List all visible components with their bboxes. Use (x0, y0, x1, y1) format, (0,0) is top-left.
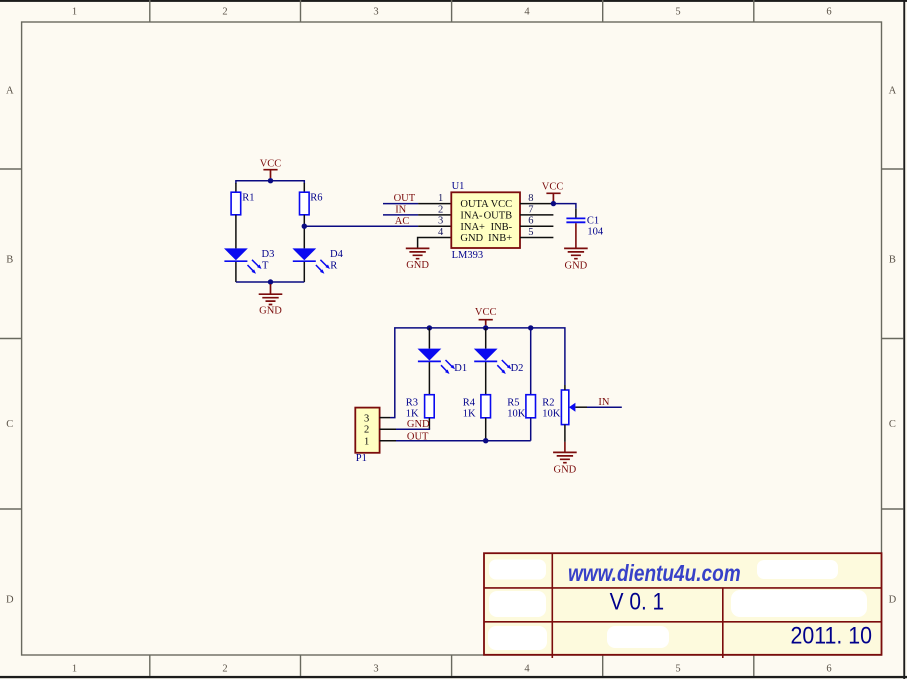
svg-text:C: C (889, 419, 896, 430)
svg-text:INA+: INA+ (460, 222, 485, 233)
svg-text:8: 8 (528, 193, 533, 204)
svg-text:GND: GND (554, 464, 577, 475)
svg-text:1: 1 (438, 193, 443, 204)
svg-text:D3: D3 (262, 249, 275, 260)
svg-text:GND: GND (407, 419, 430, 430)
wire (rail to D1) (428, 328, 430, 349)
wire (pin R6 top) (303, 183, 305, 192)
wire (D2 to R4) (485, 362, 487, 395)
node (junction dot bottom rail) (268, 279, 273, 284)
svg-text:R6: R6 (310, 193, 322, 204)
wire (pin stub P1-3) (380, 417, 390, 419)
svg-text:U1: U1 (452, 181, 465, 192)
svg-text:A: A (6, 86, 14, 97)
svg-text:2: 2 (438, 204, 443, 215)
svg-text:INB+: INB+ (488, 233, 512, 244)
power port VCC (U1 pin 8) (542, 181, 564, 201)
svg-text:B: B (6, 255, 13, 266)
svg-text:2011. 10: 2011. 10 (791, 623, 873, 650)
node (AC tap junction) (302, 224, 307, 229)
svg-text:OUT: OUT (394, 193, 416, 204)
node (junction D1 branch) (427, 325, 432, 330)
resistor R6 (300, 192, 323, 215)
svg-text:6: 6 (528, 216, 533, 227)
svg-text:D: D (889, 595, 897, 606)
ground (C1) (564, 248, 588, 271)
svg-text:5: 5 (528, 227, 533, 238)
wire (D1 to R3) (428, 362, 430, 395)
svg-text:4: 4 (524, 664, 530, 675)
svg-text:GND: GND (259, 305, 282, 316)
title block (484, 553, 882, 658)
svg-text:B: B (889, 255, 896, 266)
svg-text:3: 3 (364, 413, 369, 424)
LED D1 (418, 349, 468, 374)
svg-text:GND: GND (460, 233, 483, 244)
svg-text:1K: 1K (406, 408, 419, 419)
svg-text:T: T (262, 261, 269, 272)
wire (net OUT rail P1 pin1) (396, 440, 531, 442)
wire (R1 bottom to D3) (235, 215, 237, 249)
svg-text:R4: R4 (463, 397, 476, 408)
svg-text:104: 104 (587, 226, 604, 237)
wire (pin stubs U1 right) (520, 204, 553, 238)
svg-text:IN: IN (598, 397, 609, 408)
svg-text:2: 2 (222, 664, 227, 675)
svg-text:R2: R2 (542, 397, 554, 408)
wire (pin C1 top) (575, 209, 577, 218)
op-amp U1 LM393 (451, 181, 520, 261)
svg-text:R5: R5 (507, 397, 519, 408)
wire (R4 bottom to OUT rail) (485, 418, 487, 441)
wire (D3 to bottom rail) (235, 262, 237, 282)
wire (pin stubs U1 left) (418, 204, 452, 249)
svg-text:OUT: OUT (407, 431, 429, 442)
svg-text:1: 1 (364, 436, 369, 447)
svg-text:LM393: LM393 (452, 250, 484, 261)
node (junction R5 branch) (528, 325, 533, 330)
wire (pin stub P1-2) (380, 428, 396, 430)
connector P1 (355, 408, 379, 464)
svg-text:1: 1 (72, 664, 77, 675)
svg-text:2: 2 (222, 7, 227, 18)
pin numbers U1 right (528, 193, 533, 238)
wire (pin stub P1-1) (380, 440, 396, 442)
svg-text:VCC: VCC (475, 307, 497, 318)
svg-text:C: C (6, 419, 13, 430)
svg-text:R: R (330, 261, 337, 272)
svg-text:OUTA: OUTA (460, 199, 489, 210)
svg-text:4: 4 (438, 227, 444, 238)
svg-text:P1: P1 (356, 453, 367, 464)
svg-text:7: 7 (528, 204, 533, 215)
node (junction R4/OUT) (483, 438, 488, 443)
wire (VCC rail bottom circuit with P1-3 riser and R2 riser) (390, 328, 565, 418)
svg-text:3: 3 (373, 664, 378, 675)
svg-text:INA-: INA- (460, 211, 483, 222)
svg-text:GND: GND (565, 260, 588, 271)
svg-text:6: 6 (826, 7, 831, 18)
svg-text:R1: R1 (242, 193, 254, 204)
svg-text:D2: D2 (511, 363, 524, 374)
svg-text:A: A (889, 86, 897, 97)
svg-text:V 0. 1: V 0. 1 (610, 589, 665, 616)
svg-text:IN: IN (395, 205, 406, 216)
svg-text:VCC: VCC (491, 199, 513, 210)
wire (pin R2 top) (564, 385, 566, 390)
svg-text:10K: 10K (542, 408, 561, 419)
node (junction dot pin 8 / VCC) (551, 201, 556, 206)
svg-text:R3: R3 (406, 397, 418, 408)
LED D3 (224, 248, 274, 273)
wire (pin R1 top) (235, 183, 237, 192)
svg-text:4: 4 (524, 7, 530, 18)
wire (bottom rail D3-D4) (236, 281, 304, 283)
wire (rail to D2) (485, 328, 487, 349)
resistor R5 10K (507, 395, 535, 420)
wire (R6 bottom to D4) (303, 215, 305, 249)
svg-text:1K: 1K (463, 408, 476, 419)
svg-text:INB-: INB- (491, 222, 513, 233)
svg-text:3: 3 (438, 216, 443, 227)
svg-text:C1: C1 (587, 215, 599, 226)
potentiometer R2 10K (542, 390, 575, 425)
capacitor C1 104 (566, 215, 604, 237)
wire (rail to R5 top) (530, 328, 532, 395)
power port VCC (bottom circuit) (475, 307, 497, 325)
wire (net IN to pin 2) (383, 214, 418, 216)
wire (net OUT to pin 1) (383, 203, 418, 205)
wire (to ground R2) (564, 442, 566, 452)
LED D4 (292, 248, 343, 273)
resistor R1 (231, 192, 254, 215)
resistor R4 1K (463, 395, 491, 420)
svg-text:www.dientu4u.com: www.dientu4u.com (568, 560, 741, 586)
svg-text:10K: 10K (507, 408, 526, 419)
svg-text:D: D (6, 595, 14, 606)
wire (net GND segment) (396, 428, 430, 430)
ground (U1 pin 4) (406, 248, 430, 270)
wire (net IN) (587, 406, 622, 408)
wire (VCC to C1) (553, 204, 576, 209)
wire (R5 bottom to OUT rail) (530, 418, 532, 441)
LED D2 (474, 349, 524, 374)
wire (D4 to bottom rail) (303, 262, 305, 282)
wire (VCC rail R1-R6 top) (236, 181, 304, 184)
svg-text:AC: AC (395, 216, 410, 227)
svg-text:GND: GND (406, 260, 429, 271)
wire (C1 bottom to ground) (575, 223, 577, 248)
pin numbers U1 left (438, 193, 444, 238)
svg-text:VCC: VCC (542, 181, 564, 192)
power port VCC (top circuit) (260, 159, 282, 178)
ground (below D3/D4 rail) (259, 284, 283, 316)
svg-text:6: 6 (826, 664, 831, 675)
svg-text:1: 1 (72, 7, 77, 18)
ground (R2) (553, 452, 577, 475)
svg-text:VCC: VCC (260, 159, 282, 170)
node (junction D2/VCC branch) (483, 325, 488, 330)
wire (R2 bottom) (564, 425, 566, 442)
svg-text:5: 5 (675, 7, 680, 18)
svg-text:D1: D1 (454, 363, 467, 374)
svg-text:2: 2 (364, 425, 369, 436)
svg-text:3: 3 (373, 7, 378, 18)
node (junction dot VCC rail) (268, 178, 273, 183)
wire (R2 wiper stub) (575, 406, 587, 408)
svg-text:OUTB: OUTB (484, 211, 513, 222)
wire (R3 bottom to net GND corner) (428, 418, 430, 430)
resistor R3 1K (406, 395, 434, 420)
svg-text:5: 5 (675, 664, 680, 675)
svg-text:D4: D4 (330, 249, 344, 260)
wire (net AC from D4 junction to pin 3) (304, 225, 418, 227)
